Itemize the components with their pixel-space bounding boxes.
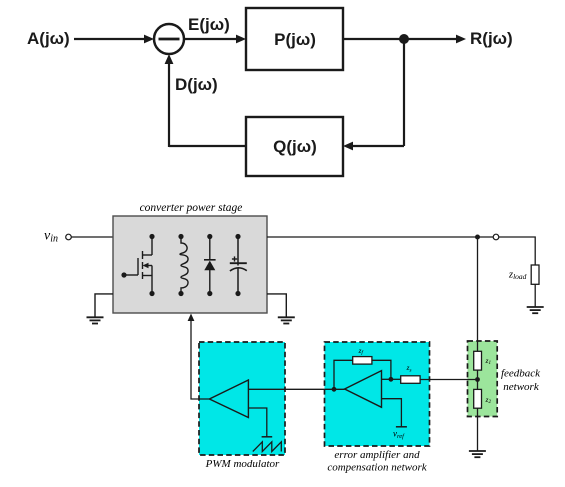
diode bottom dot [207, 291, 212, 296]
resistor z_s [401, 376, 420, 384]
wire into op-amp inverting input [382, 378, 391, 380]
wire converter output [267, 236, 493, 238]
MOSFET gate dot [121, 272, 126, 277]
sawtooth terminal bar [262, 436, 273, 438]
PWM modulator box (cyan dashed) [199, 342, 285, 455]
wire up into summing junction [168, 60, 170, 147]
svg-text:vin: vin [44, 229, 58, 245]
svg-text:R(jω): R(jω) [470, 29, 513, 48]
MOSFET source dot [149, 291, 154, 296]
inductor bottom dot [178, 291, 183, 296]
arrowhead at R [456, 35, 466, 44]
svg-text:P(jω): P(jω) [274, 30, 316, 49]
svg-text:E(jω): E(jω) [188, 15, 230, 34]
wire output node down to feedback network [477, 237, 479, 352]
wire z1 to z2 [477, 370, 479, 389]
wire z_f to inverting input [372, 360, 391, 379]
resistor z1 [474, 351, 482, 370]
resistor z2 [474, 389, 482, 408]
svg-text:zload: zload [508, 270, 527, 282]
wire node to R output [404, 38, 459, 40]
wire converter left to ground [95, 294, 113, 317]
v_ref terminal bar [396, 426, 407, 428]
converter power stage box [113, 216, 267, 313]
wire terminal to load [499, 237, 535, 265]
inductor top dot [178, 234, 183, 239]
error amplifier box (cyan dashed) [325, 342, 430, 446]
transistor Q (MOSFET) [124, 237, 152, 294]
MOSFET body arrow [143, 263, 149, 268]
wire z2 to ground [477, 408, 479, 451]
ground (converter right) [278, 317, 295, 323]
wire A input [74, 38, 146, 40]
block Q(jω) [246, 117, 343, 176]
wire op-amp output [248, 388, 344, 390]
arrowhead up into summing junction [165, 54, 174, 64]
feedback network box (green dashed) [468, 341, 498, 417]
wire feedback loop up and over z_f [334, 360, 353, 389]
wire E: summing junction to P [184, 38, 240, 40]
node: output/feedback junction dot [332, 387, 337, 392]
capacitor bottom dot [235, 291, 240, 296]
node: output junction dot [475, 235, 480, 240]
capacitor plus sign [232, 256, 237, 261]
op-amp U1 (error amplifier) [345, 371, 382, 408]
wire Q output to left [169, 145, 246, 147]
wire z_s to inverting node [391, 378, 401, 380]
diode top dot [207, 234, 212, 239]
svg-text:network: network [503, 381, 540, 393]
node: feedback tap dot [475, 377, 480, 382]
svg-text:error amplifier and: error amplifier and [334, 449, 420, 461]
wire feedback horizontal into Q [349, 145, 404, 147]
ground (feedback) [469, 451, 486, 457]
arrowhead into Q [343, 142, 353, 151]
output terminal circle [493, 234, 499, 240]
MOSFET drain dot [149, 234, 154, 239]
wire v_ref to non-inverting input [382, 399, 402, 427]
wire load to ground [534, 284, 536, 307]
wire feedback tap to error amplifier [420, 379, 478, 381]
svg-text:converter power stage: converter power stage [140, 202, 243, 214]
svg-text:feedback: feedback [501, 368, 541, 380]
arrowhead into converter bottom [188, 314, 195, 322]
svg-text:D(jω): D(jω) [175, 75, 218, 94]
node: inverting input dot [389, 377, 394, 382]
resistor z_load [531, 265, 539, 284]
summing junction (minus) [154, 24, 184, 54]
capacitor top dot [235, 234, 240, 239]
sawtooth waveform symbol [253, 442, 281, 452]
node (junction dot) on output [399, 34, 409, 44]
inductor L [180, 237, 188, 294]
wire P to output node [343, 38, 404, 40]
wire feedback vertical from node [403, 39, 405, 146]
arrowhead into P [236, 35, 246, 44]
ground (load) [527, 307, 544, 313]
wire sawtooth input [248, 408, 266, 437]
capacitor C [230, 237, 247, 294]
input terminal circle [66, 234, 72, 240]
ground (converter left) [87, 317, 104, 323]
svg-text:A(jω): A(jω) [27, 29, 70, 48]
resistor z_f [353, 357, 372, 365]
diode D [204, 237, 216, 294]
wire comparator output to converter (duty cycle) [191, 317, 209, 399]
diode triangle [204, 261, 215, 271]
svg-text:PWM modulator: PWM modulator [205, 458, 280, 470]
wire vin to converter box [71, 236, 113, 238]
wire into z1 (inside green box) [477, 341, 479, 352]
comparator (PWM) [209, 380, 248, 418]
arrowhead into summing junction [144, 35, 154, 44]
svg-text:Q(jω): Q(jω) [273, 137, 317, 156]
wire converter right to ground [267, 294, 286, 317]
svg-text:compensation network: compensation network [327, 462, 427, 474]
block P(jω) [246, 8, 343, 70]
